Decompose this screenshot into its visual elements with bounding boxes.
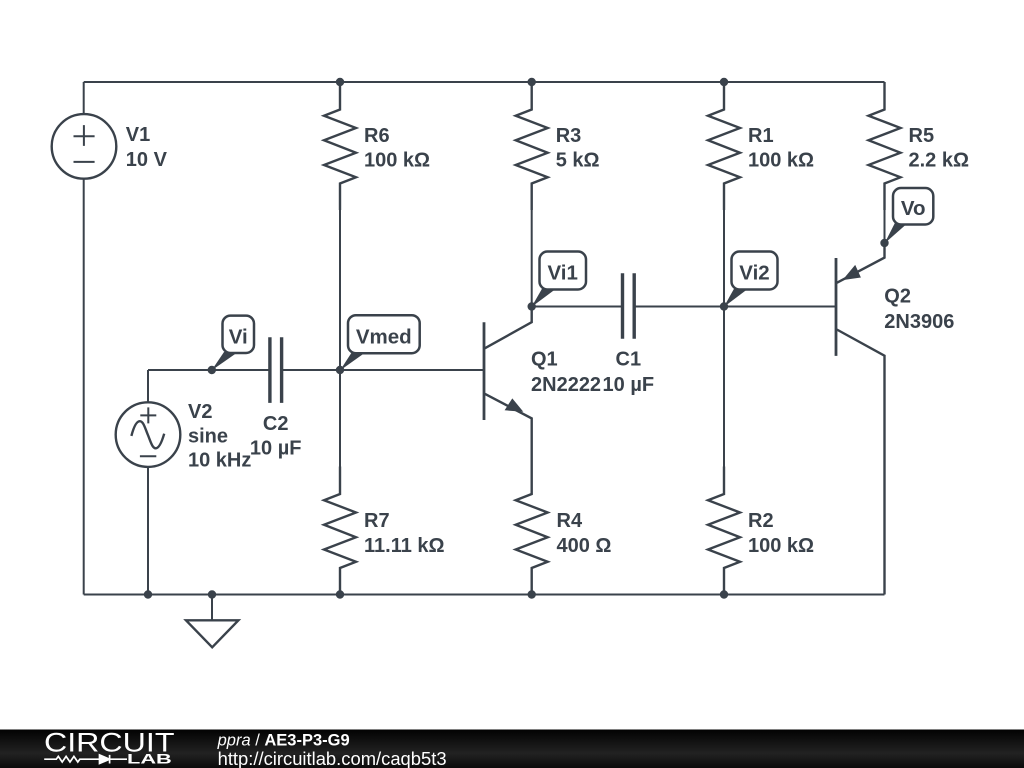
svg-text:10 kHz: 10 kHz xyxy=(188,449,251,471)
svg-text:R7: R7 xyxy=(364,510,390,532)
svg-text:Vi2: Vi2 xyxy=(739,262,769,285)
svg-text:V1: V1 xyxy=(126,124,150,146)
svg-text:11.11 kΩ: 11.11 kΩ xyxy=(364,535,445,557)
wire V2 bottom lead xyxy=(147,467,149,595)
capacitor C2 xyxy=(270,337,282,403)
wire R6 to Vmed xyxy=(339,210,341,370)
node Vi dot xyxy=(208,366,216,374)
ground xyxy=(186,595,238,648)
svg-text:Vo: Vo xyxy=(901,197,926,220)
junction top rail R6 xyxy=(336,78,344,86)
node Vi1 dot xyxy=(528,302,536,310)
svg-text:R4: R4 xyxy=(557,510,583,532)
wire R1 to Vi2 xyxy=(723,210,725,307)
svg-text:100 kΩ: 100 kΩ xyxy=(748,149,814,171)
svg-text:5 kΩ: 5 kΩ xyxy=(556,149,600,171)
svg-text:Vmed: Vmed xyxy=(356,325,412,348)
resistor R1 xyxy=(708,82,740,210)
svg-text:Vi: Vi xyxy=(229,325,248,348)
node Vi2 dot xyxy=(720,302,728,310)
node Vo dot xyxy=(880,239,888,247)
svg-text:Q1: Q1 xyxy=(531,349,558,371)
resistor R6 xyxy=(324,82,356,210)
wire Vi2 to Q2 base xyxy=(724,306,836,308)
wire left rail lower xyxy=(83,179,85,595)
svg-text:10 µF: 10 µF xyxy=(250,437,302,459)
resistor R4 xyxy=(516,467,548,595)
wire C1 to Vi2 xyxy=(634,306,724,308)
svg-text:400 Ω: 400 Ω xyxy=(557,535,612,557)
svg-text:R5: R5 xyxy=(909,125,935,147)
wire left rail upper xyxy=(83,82,85,114)
node Vi flag xyxy=(212,316,255,371)
wire R3 to Vi1 xyxy=(531,210,533,307)
transistor Q1 2N2222 xyxy=(484,307,532,467)
resistor R2 xyxy=(708,467,740,595)
svg-text:R3: R3 xyxy=(556,125,582,147)
svg-text:R2: R2 xyxy=(748,510,774,532)
wire V2 top lead xyxy=(147,370,149,402)
node Vmed dot xyxy=(336,366,344,374)
svg-text:R6: R6 xyxy=(364,125,390,147)
svg-text:10 V: 10 V xyxy=(126,149,168,171)
voltage source V1 xyxy=(52,114,117,179)
svg-text:Vi1: Vi1 xyxy=(547,262,577,285)
wire top rail xyxy=(84,81,885,83)
svg-text:10 µF: 10 µF xyxy=(603,374,655,396)
svg-text:100 kΩ: 100 kΩ xyxy=(364,149,430,171)
wire Vi row from V2 xyxy=(148,369,270,371)
wire bottom rail xyxy=(84,594,885,596)
svg-text:LAB: LAB xyxy=(127,751,172,766)
node Vi2 flag xyxy=(724,252,778,308)
voltage source V2 sine xyxy=(116,402,181,467)
junction top rail R3 xyxy=(528,78,536,86)
footer bar xyxy=(0,730,1024,768)
wire Vi2 to R2 xyxy=(723,307,725,467)
junction bottom rail R4 xyxy=(528,590,536,598)
svg-text:R1: R1 xyxy=(748,125,774,147)
CircuitLab logo zigzag diode xyxy=(44,755,127,764)
junction bottom rail ground xyxy=(208,590,216,598)
svg-text:C2: C2 xyxy=(263,413,289,435)
resistor R7 xyxy=(324,467,356,595)
wire C2 to Q1 base xyxy=(282,369,484,371)
wire R5 to Vo xyxy=(884,210,886,243)
junction bottom rail R2 xyxy=(720,590,728,598)
node Vi1 flag xyxy=(532,252,587,308)
svg-text:C1: C1 xyxy=(616,349,642,371)
svg-text:sine: sine xyxy=(188,425,228,447)
svg-text:100 kΩ: 100 kΩ xyxy=(748,535,814,557)
node Vmed flag xyxy=(340,315,420,370)
svg-text:http://circuitlab.com/caqb5t3: http://circuitlab.com/caqb5t3 xyxy=(218,748,447,768)
wire Vi1 to C1 xyxy=(532,306,623,308)
wire Vmed to R7 xyxy=(339,370,341,467)
resistor R5 xyxy=(869,82,901,210)
capacitor C1 xyxy=(623,273,635,339)
junction bottom rail R7 xyxy=(336,590,344,598)
node Vo flag xyxy=(885,188,934,244)
svg-text:V2: V2 xyxy=(188,401,212,423)
junction bottom rail V2 xyxy=(144,590,152,598)
junction top rail R1 xyxy=(720,78,728,86)
resistor R3 xyxy=(516,82,548,210)
svg-text:Q2: Q2 xyxy=(884,286,911,308)
transistor Q2 2N3906 xyxy=(836,243,885,595)
svg-text:2N3906: 2N3906 xyxy=(884,311,954,333)
svg-text:2N2222: 2N2222 xyxy=(531,374,601,396)
svg-text:2.2 kΩ: 2.2 kΩ xyxy=(909,149,970,171)
